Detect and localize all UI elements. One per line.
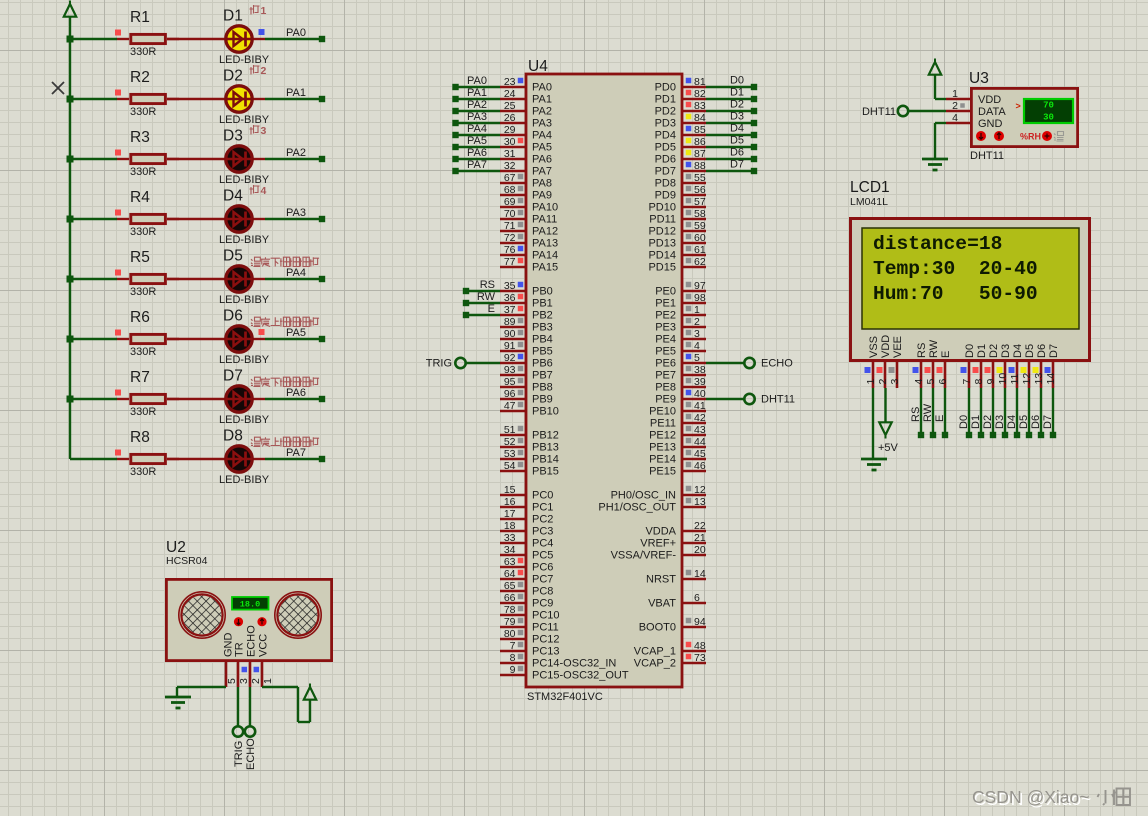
U2 pin 5 [226, 662, 238, 687]
svg-text:37: 37 [504, 304, 516, 316]
svg-text:D5: D5 [1018, 415, 1030, 429]
svg-text:%RH: %RH [1020, 132, 1041, 142]
svg-text:90: 90 [504, 328, 516, 340]
svg-text:4: 4 [261, 185, 267, 197]
svg-text:14: 14 [1045, 373, 1057, 385]
svg-text:18.0: 18.0 [240, 600, 260, 610]
svg-text:PA14: PA14 [532, 250, 558, 262]
svg-text:GND: GND [978, 118, 1003, 130]
svg-text:RS: RS [480, 279, 495, 291]
svg-text:TR: TR [234, 642, 246, 657]
svg-text:22: 22 [694, 520, 706, 532]
wire LCD VDD to +5V [884, 388, 886, 422]
U4 pin 7 (PC13) [500, 640, 560, 658]
U4 pin 13 (PH1/OSC_OUT) [598, 496, 706, 514]
ground (U2) [165, 697, 191, 708]
LCD1 pin 10 (D3) [997, 344, 1013, 388]
svg-text:PA2: PA2 [467, 99, 487, 111]
U4 pin 64 (PC7) [500, 568, 553, 586]
U4 pin 26 (PA3) [500, 112, 552, 130]
U4 pin 25 (PA2) [500, 100, 552, 118]
svg-text:330R: 330R [130, 406, 156, 418]
svg-text:PC15-OSC32_OUT: PC15-OSC32_OUT [532, 670, 629, 682]
svg-text:35: 35 [504, 280, 516, 292]
LCD1 pin 4 (RS) [913, 343, 929, 388]
U4 pin 98 (PE1) [655, 292, 706, 310]
wire R7 to D7 [167, 398, 225, 400]
svg-text:PE6: PE6 [655, 358, 676, 370]
svg-text:6: 6 [694, 592, 700, 604]
U4 pin 17 (PC2) [500, 508, 553, 526]
svg-text:25: 25 [504, 100, 516, 112]
U4 pin 94 (BOOT0) [639, 616, 706, 634]
svg-text:PB5: PB5 [532, 346, 553, 358]
svg-text:1: 1 [865, 379, 877, 385]
svg-text:PC0: PC0 [532, 490, 553, 502]
annotation 灯3 [250, 125, 267, 137]
svg-text:70: 70 [1043, 101, 1054, 111]
svg-text:PD0: PD0 [655, 82, 676, 94]
svg-text:R6: R6 [130, 309, 150, 326]
svg-text:PE11: PE11 [650, 418, 676, 430]
power symbol +V (U2) [304, 684, 316, 700]
terminal DHT11 (sensor side) [862, 106, 908, 118]
LED D6 LED-BIBY [219, 308, 270, 367]
svg-text:D4: D4 [1012, 344, 1024, 358]
U4 pin 65 (PC8) [500, 580, 553, 598]
wire LCD E to node E [934, 388, 948, 438]
U4 pin 97 (PE0) [655, 280, 706, 298]
svg-text:PA0: PA0 [532, 82, 552, 94]
svg-text:PD6: PD6 [655, 154, 676, 166]
svg-text:40: 40 [694, 388, 706, 400]
svg-text:PA1: PA1 [467, 87, 487, 99]
svg-text:R1: R1 [130, 9, 150, 26]
svg-text:8: 8 [973, 379, 985, 385]
node PA4 (LED row) [286, 267, 325, 282]
svg-text:2: 2 [877, 379, 889, 385]
U4 pin 15 (PC0) [500, 484, 553, 502]
svg-text:D1: D1 [970, 415, 982, 429]
wire U4 to node D0 [706, 75, 757, 91]
svg-text:Temp:30 20-40: Temp:30 20-40 [873, 258, 1038, 280]
svg-text:LED-BIBY: LED-BIBY [219, 174, 270, 186]
LED D7 LED-BIBY [219, 368, 270, 427]
svg-text:PE7: PE7 [655, 370, 676, 382]
U4 pin 4 (PE5) [655, 340, 706, 358]
wire D4 to terminal PA3 [265, 218, 322, 220]
svg-text:VDD: VDD [978, 94, 1001, 106]
U4 pin 39 (PE8) [655, 376, 706, 394]
svg-text:13: 13 [1033, 373, 1045, 385]
svg-text:36: 36 [504, 292, 516, 304]
power symbol +5V (LCD) [878, 422, 899, 454]
svg-text:PE15: PE15 [649, 466, 676, 478]
svg-text:52: 52 [504, 436, 516, 448]
svg-text:330R: 330R [130, 346, 156, 358]
svg-text:D6: D6 [223, 308, 243, 325]
svg-text:LED-BIBY: LED-BIBY [219, 54, 270, 66]
U4 pin 72 (PA13) [500, 232, 558, 250]
svg-text:PB7: PB7 [532, 370, 553, 382]
svg-text:94: 94 [694, 616, 706, 628]
svg-text:12: 12 [694, 484, 706, 496]
svg-text:PA5: PA5 [532, 142, 552, 154]
wire U4 to node D3 [706, 111, 757, 127]
svg-text:PC4: PC4 [532, 538, 553, 550]
svg-text:ECHO: ECHO [245, 738, 257, 770]
LED D1 LED-BIBY [219, 8, 270, 67]
U2 display value 18.0 [232, 597, 269, 610]
U4 pin 57 (PD10) [648, 196, 706, 214]
U4 pin 86 (PD5) [655, 136, 706, 154]
svg-text:1: 1 [262, 678, 274, 684]
svg-text:DATA: DATA [978, 106, 1006, 118]
svg-text:89: 89 [504, 316, 516, 328]
wire R6 to D6 [167, 338, 225, 340]
U4 pin 95 (PB8) [500, 376, 553, 394]
svg-text:68: 68 [504, 184, 516, 196]
svg-text:87: 87 [694, 148, 706, 160]
svg-text:D0: D0 [958, 415, 970, 429]
svg-text:distance=18: distance=18 [873, 233, 1002, 255]
svg-text:PC1: PC1 [532, 502, 553, 514]
svg-text:51: 51 [504, 424, 516, 436]
svg-text:18: 18 [504, 520, 516, 532]
svg-text:PB12: PB12 [532, 430, 559, 442]
U4 pin 71 (PA12) [500, 220, 558, 238]
svg-text:PB3: PB3 [532, 322, 553, 334]
svg-text:82: 82 [694, 88, 706, 100]
svg-text:20: 20 [694, 544, 706, 556]
svg-text:TRIG: TRIG [426, 358, 452, 370]
svg-text:39: 39 [694, 376, 706, 388]
svg-text:PC12: PC12 [532, 634, 560, 646]
wire LCD D0 to node D0 [958, 388, 972, 438]
svg-text:PD2: PD2 [655, 106, 676, 118]
svg-text:LED-BIBY: LED-BIBY [219, 234, 270, 246]
svg-text:U2: U2 [166, 539, 186, 556]
LCD1 pin 14 (D7) [1045, 344, 1061, 388]
wire D2 to terminal PA1 [265, 98, 322, 100]
U2 pin 2 [250, 662, 262, 687]
svg-text:PB6: PB6 [532, 358, 553, 370]
U4 pin 69 (PA10) [500, 196, 558, 214]
svg-text:42: 42 [694, 412, 706, 424]
wire LCD D2 to node D2 [982, 388, 996, 438]
svg-text:47: 47 [504, 400, 516, 412]
svg-text:PA0: PA0 [286, 27, 306, 39]
power symbol +V (LED bus) [64, 1, 76, 40]
svg-text:73: 73 [694, 652, 706, 664]
svg-text:2: 2 [261, 65, 267, 77]
svg-text:PC10: PC10 [532, 610, 560, 622]
svg-text:1: 1 [261, 5, 267, 17]
svg-text:PA0: PA0 [467, 75, 487, 87]
U4 pin 20 (VSSA/VREF-) [611, 544, 706, 562]
svg-text:91: 91 [504, 340, 516, 352]
U4 pin 87 (PD6) [655, 148, 706, 166]
terminal DHT11 (U4 side) [706, 394, 795, 406]
ground (U3) [922, 159, 948, 170]
svg-text:62: 62 [694, 256, 706, 268]
svg-text:R5: R5 [130, 249, 150, 266]
svg-text:54: 54 [504, 460, 516, 472]
LCD1 pin 9 (D2) [985, 344, 1001, 388]
U4 pin 30 (PA5) [500, 136, 552, 154]
watermark CSDN [972, 787, 1130, 809]
svg-text:85: 85 [694, 124, 706, 136]
svg-text:60: 60 [694, 232, 706, 244]
svg-text:D4: D4 [730, 123, 744, 135]
svg-text:PE13: PE13 [649, 442, 676, 454]
wire node PA7 to U4 [452, 159, 500, 174]
U3 adjust buttons and %RH label [976, 131, 1064, 142]
svg-text:330R: 330R [130, 286, 156, 298]
U4 pin 93 (PB7) [500, 364, 553, 382]
U4 pin 32 (PA7) [500, 160, 552, 178]
wire R2 to D2 [167, 98, 225, 100]
svg-text:HCSR04: HCSR04 [166, 555, 208, 567]
svg-text:VCC: VCC [258, 634, 270, 657]
wire node E to U4 [463, 303, 500, 318]
wire U4 to node D2 [706, 99, 757, 115]
LED D8 LED-BIBY [219, 428, 270, 487]
svg-text:D6: D6 [1036, 344, 1048, 358]
svg-text:VDDA: VDDA [645, 526, 676, 538]
svg-text:95: 95 [504, 376, 516, 388]
U4 pin 22 (VDDA) [645, 520, 706, 538]
svg-text:66: 66 [504, 592, 516, 604]
svg-text:330R: 330R [130, 466, 156, 478]
svg-text:D7: D7 [1048, 344, 1060, 358]
svg-text:11: 11 [1009, 373, 1021, 384]
svg-text:71: 71 [504, 220, 516, 232]
wire LCD D3 to node D3 [994, 388, 1008, 438]
net state marker R2 left [115, 90, 121, 96]
U4 pin 44 (PE13) [649, 436, 706, 454]
U4 pin 83 (PD2) [655, 100, 706, 118]
net state marker R4 left [115, 210, 121, 216]
U4 pin 56 (PD9) [655, 184, 706, 202]
svg-text:16: 16 [504, 496, 516, 508]
svg-text:PE14: PE14 [649, 454, 676, 466]
wire U3 GND to ground [935, 123, 946, 159]
svg-text:PE8: PE8 [655, 382, 676, 394]
svg-text:PB10: PB10 [532, 406, 559, 418]
svg-text:34: 34 [504, 544, 516, 556]
U4 pin 5 (PE6) [655, 352, 706, 370]
svg-text:8: 8 [510, 652, 516, 664]
wire LCD D1 to node D1 [970, 388, 984, 438]
wire R4 to D4 [167, 218, 225, 220]
svg-text:21: 21 [694, 532, 706, 544]
svg-text:D1: D1 [976, 344, 988, 358]
resistor R2 330R [117, 69, 179, 118]
wire bus to R5 [70, 278, 117, 280]
junction bus row 4 [67, 216, 74, 223]
svg-text:PB2: PB2 [532, 310, 553, 322]
net state marker R8 left [115, 450, 121, 456]
svg-text:>: > [1016, 101, 1021, 111]
U4 pin 43 (PE12) [649, 424, 706, 442]
svg-text:1: 1 [952, 88, 958, 100]
svg-text:30: 30 [1043, 113, 1054, 123]
wire R8 to D8 [167, 458, 225, 460]
svg-text:PD4: PD4 [655, 130, 676, 142]
U4 pin 47 (PB10) [500, 400, 559, 418]
svg-text:D0: D0 [964, 344, 976, 358]
svg-text:1: 1 [694, 304, 700, 316]
resistor R4 330R [117, 189, 179, 238]
U4 pin 82 (PD1) [655, 88, 706, 106]
net state markers U2 TR/ECHO [242, 667, 259, 673]
svg-text:VDD: VDD [880, 335, 892, 358]
U4 pin 16 (PC1) [500, 496, 553, 514]
svg-text:PD3: PD3 [655, 118, 676, 130]
svg-text:D0: D0 [730, 75, 744, 87]
svg-text:5: 5 [925, 379, 937, 385]
svg-text:67: 67 [504, 172, 516, 184]
U4 pin 85 (PD4) [655, 124, 706, 142]
node PA0 (LED row) [286, 27, 325, 42]
net state marker R5 left [115, 270, 121, 276]
LED D2 LED-BIBY [219, 68, 270, 127]
svg-text:PD15: PD15 [648, 262, 676, 274]
svg-text:PA9: PA9 [532, 190, 552, 202]
svg-text:D8: D8 [223, 428, 243, 445]
wire node PA3 to U4 [452, 111, 500, 126]
U4 pin 24 (PA1) [500, 88, 552, 106]
svg-text:U3: U3 [969, 70, 989, 87]
svg-text:9: 9 [985, 379, 997, 385]
U4 pin 31 (PA6) [500, 148, 552, 166]
resistor R5 330R [117, 249, 179, 298]
net state marker D6 right [259, 329, 265, 335]
svg-text:D5: D5 [223, 248, 243, 265]
svg-text:PA12: PA12 [532, 226, 558, 238]
svg-text:65: 65 [504, 580, 516, 592]
U4 pin 42 (PE11) [650, 412, 706, 430]
svg-text:PB14: PB14 [532, 454, 559, 466]
resistor R6 330R [117, 309, 179, 358]
svg-text:PC9: PC9 [532, 598, 553, 610]
wire U2 VCC to power [262, 687, 310, 722]
wire LCD D4 to node D4 [1006, 388, 1020, 438]
svg-text:PE3: PE3 [655, 322, 676, 334]
U2 pin 1 [262, 662, 274, 687]
origin marker X [52, 82, 64, 94]
junction bus row 7 [67, 396, 74, 403]
svg-text:D4: D4 [1006, 415, 1018, 429]
U4 pin 14 (NRST) [646, 568, 706, 586]
svg-text:Hum:70 50-90: Hum:70 50-90 [873, 283, 1038, 305]
wire U2 GND to ground [177, 687, 226, 697]
LCD1 pin 13 (D6) [1033, 344, 1049, 388]
svg-text:PB1: PB1 [532, 298, 553, 310]
svg-text:2: 2 [952, 100, 958, 112]
svg-text:D2: D2 [988, 344, 1000, 358]
svg-text:PA5: PA5 [286, 327, 306, 339]
U4 pin 88 (PD7) [655, 160, 706, 178]
svg-text:PA11: PA11 [532, 214, 557, 226]
net state marker R1 left [115, 30, 121, 36]
svg-text:55: 55 [694, 172, 706, 184]
wire LCD D6 to node D6 [1030, 388, 1044, 438]
U4 pin 84 (PD3) [655, 112, 706, 130]
svg-text:PH1/OSC_OUT: PH1/OSC_OUT [598, 502, 676, 514]
svg-text:PA1: PA1 [532, 94, 552, 106]
U4 pin 6 (VBAT) [648, 592, 706, 610]
wire R5 to D5 [167, 278, 225, 280]
U4 pin 96 (PB9) [500, 388, 553, 406]
svg-text:PC5: PC5 [532, 550, 553, 562]
U4 pin 66 (PC9) [500, 592, 553, 610]
svg-text:D3: D3 [730, 111, 744, 123]
junction bus row 3 [67, 156, 74, 163]
svg-text:4: 4 [913, 379, 925, 385]
U4 pin 60 (PD13) [648, 232, 706, 250]
transistor U3 body (DHT11) [946, 70, 1078, 162]
wire node PA4 to U4 [452, 123, 500, 138]
svg-text:VSSA/VREF-: VSSA/VREF- [611, 550, 677, 562]
net state marker D1 right [259, 29, 265, 35]
svg-text:31: 31 [504, 148, 516, 160]
resistor R1 330R [117, 9, 179, 58]
resistor R8 330R [117, 429, 179, 478]
U4 pin 40 (PE9) [655, 388, 706, 406]
LCD1 pin 3 (VEE) [889, 336, 905, 388]
svg-text:RS: RS [916, 343, 928, 358]
wire bus to R2 [70, 98, 117, 100]
wire R3 to D3 [167, 158, 225, 160]
svg-text:26: 26 [504, 112, 516, 124]
svg-text:PD10: PD10 [648, 202, 676, 214]
svg-text:70: 70 [504, 208, 516, 220]
svg-text:RW: RW [477, 291, 496, 303]
svg-text:PD7: PD7 [655, 166, 676, 178]
svg-text:58: 58 [694, 208, 706, 220]
svg-text:PE1: PE1 [655, 298, 676, 310]
U4 pin 35 (PB0) [500, 280, 553, 298]
svg-text:R4: R4 [130, 189, 150, 206]
LCD1 pin 8 (D1) [973, 344, 989, 388]
svg-text:92: 92 [504, 352, 516, 364]
svg-text:RS: RS [910, 407, 922, 422]
svg-text:77: 77 [504, 256, 516, 268]
node PA2 (LED row) [286, 147, 325, 162]
svg-text:PE5: PE5 [655, 346, 676, 358]
svg-text:PA15: PA15 [532, 262, 558, 274]
svg-text:BOOT0: BOOT0 [639, 622, 676, 634]
svg-text:PC6: PC6 [532, 562, 553, 574]
wire D1 to terminal PA0 [265, 38, 322, 40]
svg-text:38: 38 [694, 364, 706, 376]
wire U4 to node D5 [706, 135, 757, 151]
svg-text:30: 30 [504, 136, 516, 148]
svg-text:PC11: PC11 [532, 622, 559, 634]
svg-text:VREF+: VREF+ [640, 538, 676, 550]
svg-text:69: 69 [504, 196, 516, 208]
svg-text:R8: R8 [130, 429, 150, 446]
node PA5 (LED row) [286, 327, 325, 342]
svg-text:43: 43 [694, 424, 706, 436]
svg-text:PA2: PA2 [532, 106, 552, 118]
wire LED supply bus [69, 39, 71, 459]
U2 pin 3 [238, 662, 250, 687]
svg-text:VSS: VSS [868, 336, 880, 358]
svg-text:330R: 330R [130, 226, 156, 238]
